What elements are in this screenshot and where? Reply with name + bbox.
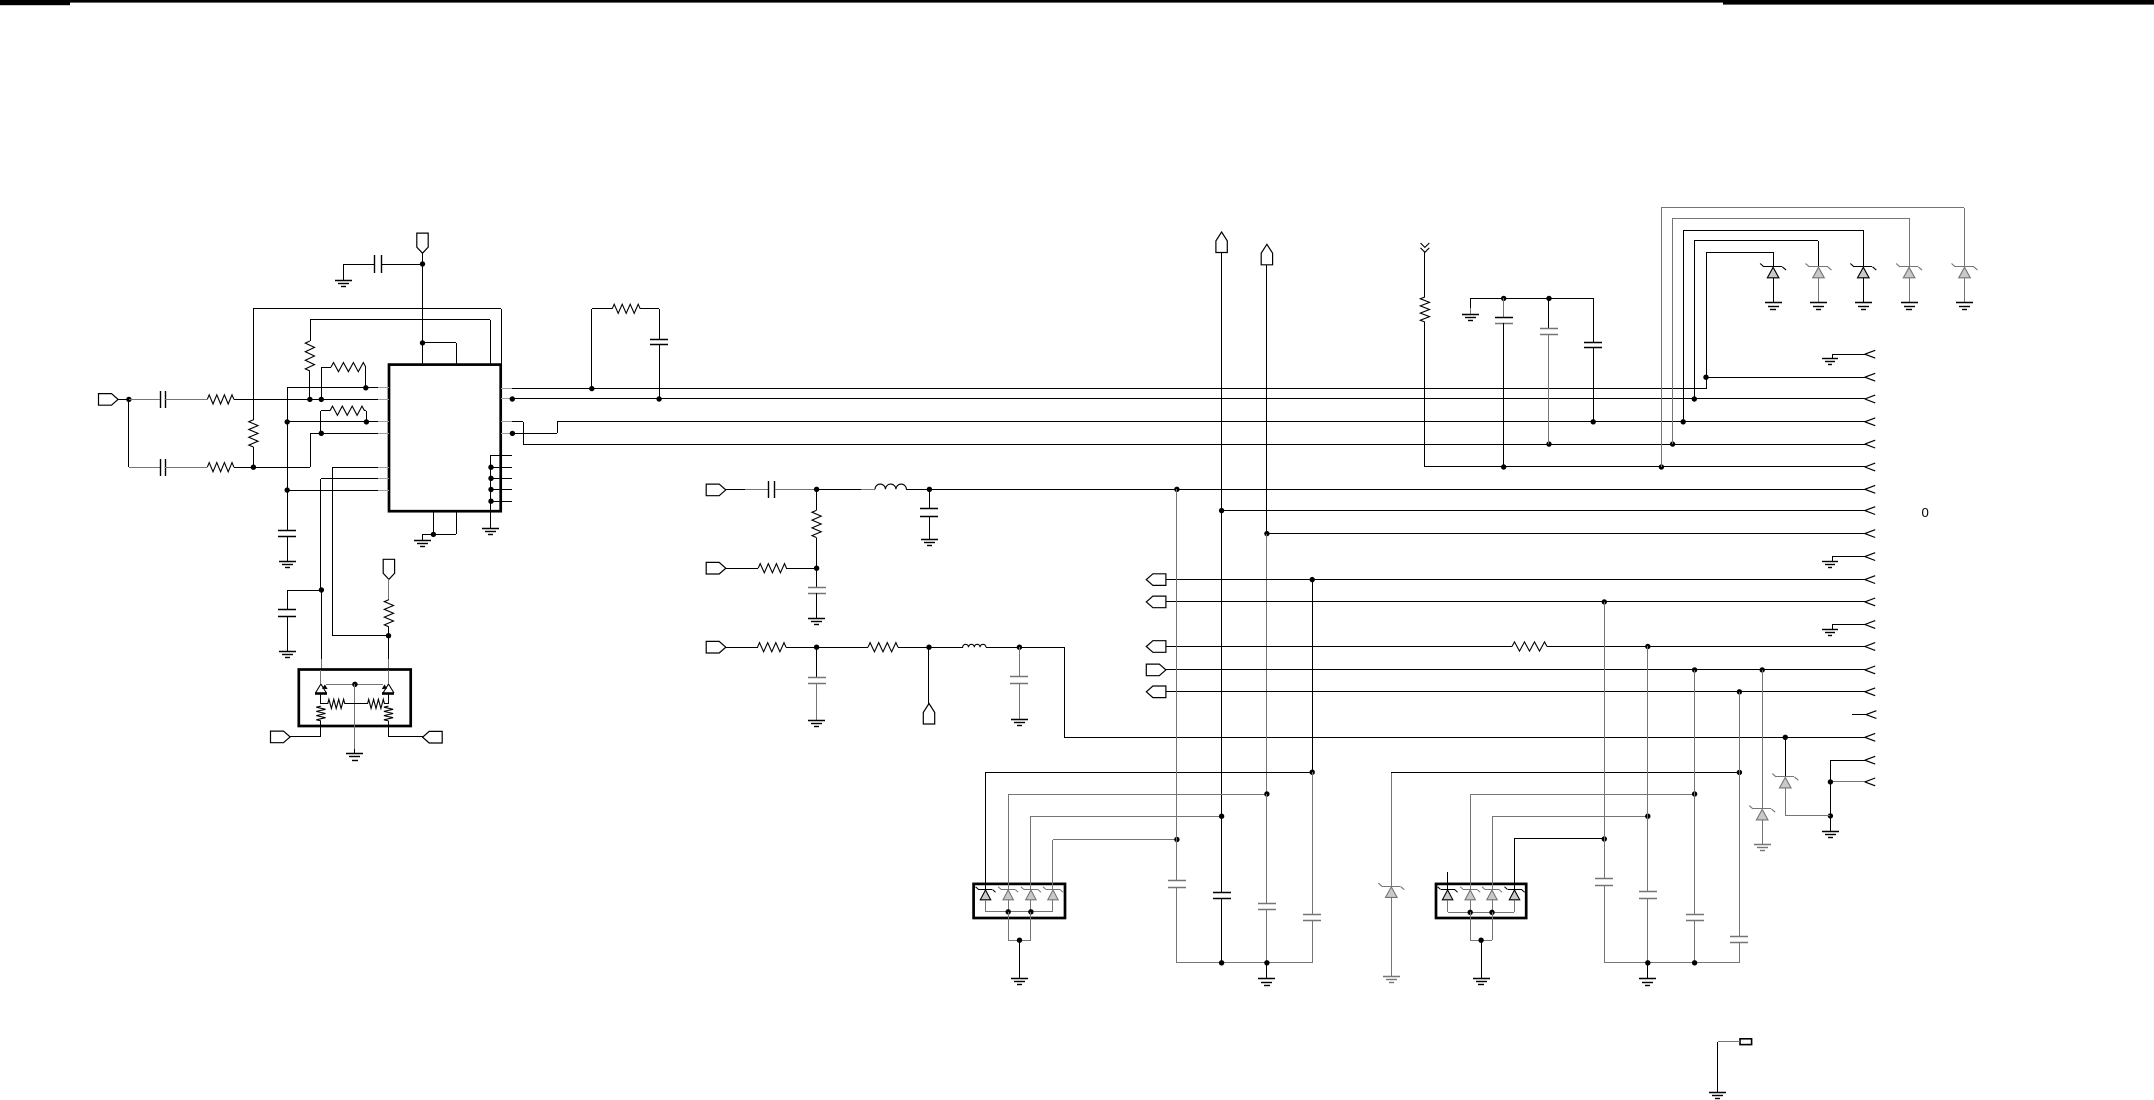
transistor Q1B [388,670,390,684]
wire v1739 [1739,692,1741,936]
node DA1 gnd joint [1017,938,1022,943]
zener D5 [1955,266,1974,268]
node DA1-1/v1312 [1310,770,1315,775]
wire line A jog to arrow row [1706,377,1708,389]
node K4/v1694 [1692,667,1697,672]
resistor R12 (row3 to row-a) [816,489,818,510]
capacitor C3 (series row2) [160,459,162,476]
connector K2 [1146,596,1166,608]
node row1 split [126,397,131,402]
wire pin to line C [512,433,557,435]
node C6/line B [656,396,661,401]
capacitor C8 [1548,298,1550,329]
zener D2 [1809,266,1828,268]
ground [1956,302,1973,304]
arrow port row13 [1865,643,1875,647]
wire DA2 to ground joint [1470,912,1472,940]
resistor R3 (horizontal) [330,406,365,415]
node K3/v1648 [1645,644,1650,649]
wire row13 [1166,646,1512,648]
node zener7 tap [1783,735,1788,740]
U1 left pin stubs [378,387,389,389]
arrow port row15 [1865,688,1875,692]
resistor R10 [592,308,612,310]
wire zener bus 4 [1673,218,1909,220]
ground [1383,976,1400,978]
zener DA1-4 [1046,889,1060,891]
wire zener bus 3 [1683,230,1863,232]
node capA/line E [1501,464,1506,469]
wire left cluster rail [1177,962,1312,964]
resistor R16 [1512,642,1547,651]
wire row18 [1830,760,1865,762]
wire DA1 to ground joint [1008,912,1010,940]
wire line E [1425,466,1865,468]
wire right cluster rail [1604,962,1739,964]
arrow port row1 [1865,373,1875,377]
zener DA2-2 [1463,889,1477,891]
wire v1648 [1647,646,1649,892]
node stub B [510,396,515,401]
ground [1639,978,1656,980]
stub arrow row16 [1852,714,1866,716]
zener D7 [1785,737,1787,777]
node row-b cap tap [814,645,819,650]
power flag mid [923,704,934,725]
wire RC loop [591,309,593,389]
wire line A [512,388,1706,390]
ground [346,753,363,755]
capacitor C19 [1595,878,1613,880]
capacitor C15 [1168,880,1186,882]
chevron no-connect symbol [1421,243,1430,247]
resistor R14 [758,643,787,652]
connector port left [271,731,291,743]
capacitor C7 [1503,298,1505,318]
wire flagA down [1221,252,1223,511]
node K1/v1312 [1310,577,1315,582]
arrow port gnd row0 [1865,350,1875,354]
node K4/zener6 [1760,667,1765,672]
node P5/C5 [319,587,324,592]
resistor pulldown (Q1B) [384,706,393,721]
ground [1011,719,1028,721]
capacitor C6 [659,309,661,339]
arrow port gnd row9 [1865,553,1875,557]
node DA2-2/v1694 [1692,791,1697,796]
wire cap left leg down [343,264,374,266]
transistor pair box Q1 [299,670,411,727]
wire Q1A to port [320,726,322,737]
ground [808,618,825,620]
wire emitter tie [326,684,383,686]
resistor R4 (vertical, loop1 to row2 node) [249,420,258,447]
top page border bar [0,0,2154,3]
wire DA1-3 cathode [1030,816,1032,890]
connector J4 [706,641,726,653]
arrow port row4 [1865,440,1875,444]
arrow port gnd row12 [1865,621,1875,625]
resistor R2 (horizontal) [331,363,366,372]
ground [1011,978,1028,980]
wire zener bus 5 [1661,207,1964,209]
node v4/line B [1692,396,1697,401]
capacitor C5 [278,609,296,611]
wire row15 [1166,691,1865,693]
zener D4 [1900,266,1918,268]
wire DA1-1 cathode [985,772,987,890]
svg-text:0: 0 [1922,505,1929,520]
resistor R11 (vertical) [1424,252,1426,297]
inductor L1 [861,489,875,491]
wire Q1B to port [388,726,390,737]
node row3/v1177 [1174,487,1179,492]
capacitor C4 [278,530,296,532]
node flagB row8 [1264,531,1269,536]
capacitor C17 [1258,903,1276,905]
node P2/vertical [285,419,290,424]
wire DA2-1 cathode stub [1447,872,1449,890]
wire power bridge [422,342,456,344]
zener DA1-1 [978,889,992,891]
wire vertical bias chain [287,388,289,531]
node R4/row2 [251,465,256,470]
wire row19 (gray) [1830,781,1865,783]
arrow port row7 [1865,507,1875,511]
wire DA2-3 cathode [1492,816,1494,890]
capacitor C11 to gnd [929,489,931,508]
wire v1222 [1221,816,1223,892]
capacitor C10 (series) [768,481,770,498]
capacitor C21 [1686,914,1704,916]
connector K3 [1146,641,1166,653]
wire flag to node [422,253,424,264]
wire v1604 [1604,602,1606,879]
ground rail [1462,314,1479,316]
capacitor C16 [1213,892,1231,894]
ground [414,540,431,542]
zener DA1-3 [1024,889,1038,891]
wire row8 [1267,533,1865,535]
connector K5 [1146,686,1166,698]
resistor R7 (vertical bias) [384,600,393,627]
power flag A [1216,232,1227,253]
node rail capA [1501,296,1506,301]
wire row11 [1166,601,1865,603]
wire DA1 anode bus [986,911,1053,913]
wire DA2 anode bus [1448,912,1514,914]
IC U1 main body [389,365,501,512]
connector jumper bottom right [1740,1039,1752,1045]
ground [808,720,825,722]
zener DA2-1 [1441,889,1455,891]
node R2/P-A [363,385,368,390]
diode array box DA2 [1436,884,1526,918]
node DA2-3/v1648 [1645,814,1650,819]
wire node down to transistor [388,636,390,659]
wire row1 to IC [234,399,378,401]
wire row-b elbow to long line [1064,647,1066,737]
node row-b flag tap [926,645,931,650]
capacitor C2 (series row1) [160,391,162,408]
resistor R1 (vertical) [305,341,314,371]
ground [1822,831,1839,833]
node RC left [589,386,594,391]
zener D3 [1854,266,1872,268]
node row-b cap2 tap [1017,645,1022,650]
node power-flag junction [420,261,425,266]
arrow port row5 [1865,463,1875,467]
ground [1709,1092,1726,1094]
wire pin to line D [512,421,523,423]
wire line P-A [287,387,378,389]
power flag B [1261,244,1272,264]
power wire down into U1 [422,264,424,365]
zener DA2-4 [1508,889,1522,891]
power flag VDD [417,233,428,253]
wire v1694 [1694,670,1696,914]
wire DA1-2 cathode [1008,794,1010,890]
wire row2 from J1 [128,399,130,467]
wire to flag [928,647,930,704]
node K5/v1739 [1737,689,1742,694]
node row19 [1828,779,1833,784]
ground [335,280,352,282]
U1 right grounded pin cluster [491,455,512,457]
arrow port row6 [1865,485,1875,489]
wire v1312 [1312,580,1314,772]
ground [1810,302,1827,304]
resistor base R (Q1B) [368,699,385,708]
wire line B [512,398,1865,400]
wire zener bus 1 [1706,252,1773,254]
resistor R13 [758,564,786,573]
inductor L2 [963,644,986,647]
ground [482,528,499,530]
capacitor C18 [1303,914,1321,916]
node R7/P4 [386,633,391,638]
node DA1-2/v1267 [1264,791,1269,796]
wire flagB down [1266,265,1268,534]
node rail capB [1546,296,1551,301]
node DA1-3/v1222 [1219,814,1224,819]
node v2/line D [1670,441,1675,446]
node bottom pin joint [431,532,436,537]
diode array box DA1 [974,884,1065,918]
zener D8 (lone left) [1391,772,1393,886]
wire DA2-4 cathode [1514,839,1516,890]
node R2/row1 [319,397,324,402]
arrow port row18 [1865,756,1875,760]
arrow port stub row16 [1866,711,1876,715]
U1 bottom pins to ground [433,511,435,534]
ground [1855,302,1872,304]
power flag bias [383,559,394,579]
node DA1-4/v1177 [1174,837,1179,842]
node D8/v1739 [1737,770,1742,775]
wire row1 [118,399,129,401]
resistor R15 [868,643,898,652]
R2 left lead down to P1 line [321,367,331,369]
zener D1 [1764,266,1782,268]
wire row-b [726,647,758,649]
node emitter center [352,682,357,687]
wire DA1-4 cathode [1052,840,1054,890]
zener D6 (lone) [1762,670,1764,809]
node row-a [814,566,819,571]
connector J3 [706,562,726,574]
arrow port row17 [1865,733,1875,737]
connector K4 [1146,664,1166,676]
capacitor C22 [1730,936,1748,938]
connector J1 (input left) [99,394,119,406]
wire loop net 1 [253,308,501,310]
node power bridge [420,340,425,345]
R3 right lead down to P2 line [364,410,366,412]
node row3 R-tap [814,487,819,492]
resistor pulldown (Q1A) [316,706,325,721]
node DA2 gnd joint [1478,938,1483,943]
arrow port row10 [1865,576,1875,580]
wire P5 gray down to transistor [321,590,323,659]
U1 right pin stubs [501,388,512,390]
arrow port row14 [1865,666,1875,670]
wire v1177 (gray vertical) [1176,489,1178,880]
node v1/line E [1659,464,1664,469]
ground [1765,302,1782,304]
wire row10 [1166,579,1865,581]
node DA2-4/v1604 [1602,836,1607,841]
node P6/vertical [285,487,290,492]
wire row2 to elbow [234,467,310,469]
capacitor C9 [1593,298,1595,342]
ground [1258,978,1275,980]
ground [1473,978,1490,980]
connector K1 [1146,574,1166,586]
capacitor C20 [1639,891,1657,893]
wire zener D8 top line [1391,772,1739,774]
node R3/P2 [364,419,369,424]
wire DA2-2 cathode [1470,794,1472,890]
wire row7 [1222,510,1865,512]
node R3-left/P3 [319,431,324,436]
node R1/row1 [307,397,312,402]
wire row3 [726,489,745,491]
node K2/v1604 [1602,599,1607,604]
node v3/line C [1681,419,1686,424]
resistor base R (Q1A) [321,703,328,705]
node zener7 return [1828,813,1833,818]
wire line P4 [332,467,378,469]
connector J2 [706,484,726,496]
arrow port row19 [1865,778,1875,782]
arrow port row11 [1865,598,1875,602]
arrow port row3 [1865,418,1875,422]
node capB/line D [1546,441,1551,446]
ground [279,651,296,653]
capacitor C13 [816,647,818,678]
wire line P3 [310,433,378,435]
connector port right [423,731,443,743]
wire line P6 [287,490,378,492]
wire flag to R7 [388,579,390,600]
capacitor C1 (series at power flag) [374,255,376,273]
R3 left lead down to P3 line [321,410,330,412]
ground [1754,844,1771,846]
capacitor C12 [816,568,818,588]
wire gnd rail [1470,298,1594,300]
wire P4 to node [332,635,388,637]
wire loop net 2 [310,319,490,321]
zener DA2-3 [1485,889,1499,891]
transistor Q1A [320,670,322,684]
wire line P5 [321,478,378,480]
wire line C [557,421,1865,423]
wire row-a [726,568,758,570]
arrow port row8 [1865,530,1875,534]
R2 right lead down to P-A line [365,367,367,388]
resistor R6 (series row2) [207,463,234,472]
wire line P2 [287,421,378,423]
ground [279,561,296,563]
wire cap to power node [381,264,422,266]
wire zener bus 2 [1694,240,1818,242]
resistor R5 (series row1) [207,395,234,404]
wire jumper to ground [1718,1041,1740,1043]
ground [921,539,938,541]
wire row14 [1166,669,1865,671]
ground [1901,302,1918,304]
zener DA1-2 [1001,889,1015,891]
node v5 junction [1703,375,1708,380]
node stub C [510,431,515,436]
arrow port row2 [1865,395,1875,399]
node row3 cap-tap [927,487,932,492]
capacitor C14 [1019,647,1021,677]
node capC/line C [1591,419,1596,424]
wire line D [523,444,1865,446]
node flagA row7 [1219,508,1224,513]
wire v1267 [1266,794,1268,904]
